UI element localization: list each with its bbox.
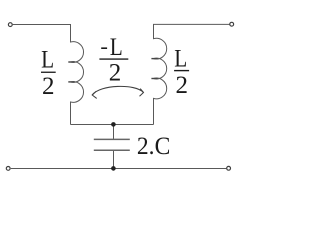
svg-text:L: L (110, 34, 123, 61)
svg-text:2: 2 (109, 60, 122, 87)
svg-text:L: L (174, 46, 187, 73)
svg-text:2: 2 (42, 73, 55, 100)
svg-text:2: 2 (175, 72, 188, 99)
svg-text:L: L (41, 47, 54, 74)
svg-text:2.C: 2.C (137, 133, 170, 160)
